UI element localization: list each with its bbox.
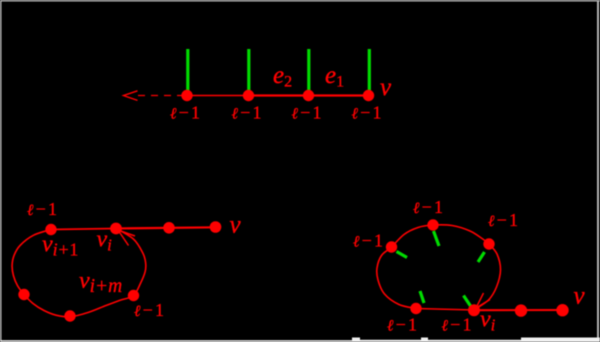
- svg-text:ℓ−1: ℓ−1: [134, 300, 166, 320]
- right border: [597, 0, 599, 342]
- green stub from bottom-left dot: [420, 291, 424, 303]
- bottom white strip: [0, 340, 600, 342]
- tail wire vi - v: [116, 227, 216, 228]
- left border: [0, 0, 2, 342]
- vertex dot 3: [303, 90, 314, 101]
- vertex vi (right figure): [468, 304, 480, 316]
- tail middle vertex: [163, 222, 175, 234]
- arrowhead (open, pointing left): [124, 91, 138, 101]
- left vertex: [386, 241, 397, 252]
- cycle outline: [377, 225, 501, 310]
- tail middle vertex (right): [515, 304, 527, 316]
- svg-text:ℓ−1: ℓ−1: [352, 103, 384, 123]
- arrow barbs into vi: [118, 230, 135, 236]
- vertex v: [210, 221, 222, 233]
- vertex dot 2: [243, 90, 254, 101]
- green stub from vi dot: [464, 296, 471, 307]
- svg-text:v: v: [230, 212, 242, 239]
- left vertex: [18, 289, 29, 300]
- bottom-left vertex: [410, 303, 421, 314]
- top-right vertex: [483, 238, 494, 249]
- wire: thick path segment e2,e1: [249, 94, 369, 96]
- svg-text:ℓ−1: ℓ−1: [387, 315, 419, 335]
- cycle arc (long way around): [12, 229, 146, 317]
- bottom strip black notch 1: [360, 338, 421, 340]
- top border: [0, 0, 600, 2]
- green pendant edge 2: [247, 49, 250, 95]
- cycle top edge vi - vi+1: [51, 229, 116, 230]
- green stub from left dot: [397, 252, 408, 258]
- svg-text:ℓ−1: ℓ−1: [292, 103, 324, 123]
- svg-text:ℓ−1: ℓ−1: [488, 210, 520, 230]
- green pendant edge 1: [186, 49, 189, 95]
- svg-text:v: v: [380, 74, 392, 101]
- green pendant edge 4: [368, 49, 371, 95]
- svg-text:ℓ−1: ℓ−1: [413, 197, 445, 217]
- tail wire vi - v: [474, 309, 563, 311]
- green stub from top dot: [434, 231, 440, 246]
- svg-text:ℓ−1: ℓ−1: [442, 315, 474, 335]
- vertex dot 4 (v): [363, 90, 374, 101]
- svg-text:ℓ−1: ℓ−1: [353, 230, 385, 250]
- top vertex: [427, 219, 438, 230]
- bottom vertex: [64, 310, 75, 321]
- arrow barbs into vi (right figure): [476, 293, 484, 308]
- svg-text:ℓ−1: ℓ−1: [232, 103, 264, 123]
- vertex vi+1: [45, 224, 56, 235]
- vertex v (right): [556, 304, 568, 316]
- green stub from top-right dot: [478, 252, 485, 262]
- green pendant edge 3: [307, 49, 310, 95]
- wire: thin segment between first two vertices: [187, 95, 249, 97]
- vertex vi+m: [128, 290, 139, 301]
- svg-text:ℓ−1: ℓ−1: [170, 103, 202, 123]
- svg-text:ℓ−1: ℓ−1: [27, 199, 59, 219]
- wire: dashed continuation to the left: [138, 95, 184, 97]
- vertex vi: [110, 223, 122, 235]
- vertex dot 1: [181, 90, 192, 101]
- bottom strip black notch 2: [428, 338, 521, 340]
- svg-text:v: v: [574, 283, 586, 310]
